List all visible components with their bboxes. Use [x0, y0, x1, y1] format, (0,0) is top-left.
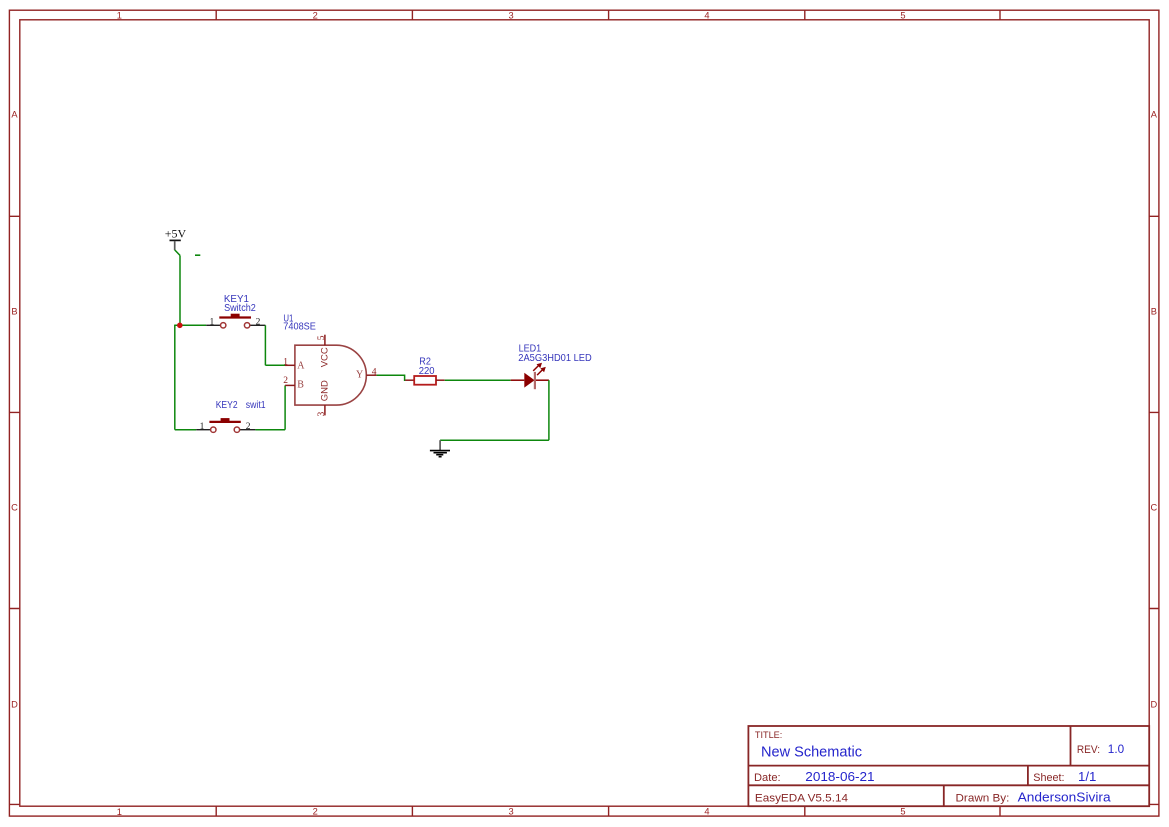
title block outline: [748, 726, 1149, 806]
svg-text:5: 5: [900, 807, 905, 817]
svg-text:1: 1: [117, 11, 122, 21]
resistor R2 right pin: [436, 379, 445, 381]
wire stray dash: [195, 254, 200, 256]
wire KEY2 pin2 to corner: [255, 429, 285, 431]
AND gate U1 pin 2: [285, 384, 295, 386]
svg-text:1: 1: [283, 357, 288, 367]
svg-text:3: 3: [509, 807, 514, 817]
svg-text:TITLE:: TITLE:: [755, 730, 782, 741]
wire left vertical down to KEY2: [174, 325, 176, 430]
switch KEY2 pin1 lead: [196, 429, 210, 431]
svg-text:New Schematic: New Schematic: [761, 743, 862, 760]
svg-text:B: B: [1151, 307, 1157, 317]
switch KEY1 contact circle 1: [221, 323, 226, 328]
wire junction to KEY1 pin1: [175, 324, 206, 326]
wire up to U1 pin B: [284, 385, 286, 429]
svg-text:A: A: [11, 109, 18, 119]
svg-text:3: 3: [509, 10, 514, 20]
AND gate U1 body: [295, 345, 366, 405]
svg-text:4: 4: [372, 367, 377, 377]
svg-text:EasyEDA V5.5.14: EasyEDA V5.5.14: [755, 792, 848, 804]
AND gate U1 pin 4: [366, 374, 376, 376]
diode LED1 cathode bar: [534, 372, 536, 389]
svg-text:1: 1: [210, 318, 215, 328]
svg-text:3: 3: [317, 412, 327, 417]
svg-text:VCC: VCC: [320, 347, 331, 367]
svg-text:+5V: +5V: [165, 227, 187, 241]
ground stub: [439, 440, 441, 450]
diode LED1 anode pin: [511, 379, 525, 381]
wire to KEY2 pin1: [175, 429, 196, 431]
svg-text:5: 5: [317, 335, 327, 340]
svg-text:Sheet:: Sheet:: [1033, 772, 1064, 784]
svg-text:D: D: [11, 699, 18, 709]
switch KEY2 actuator bar: [209, 421, 240, 423]
wire to ground: [440, 439, 549, 441]
svg-text:B: B: [297, 380, 304, 391]
frame row labels right: [1151, 109, 1158, 709]
resistor R2 body: [414, 376, 436, 385]
svg-text:2A5G3HD01 LED: 2A5G3HD01 LED: [518, 353, 591, 364]
svg-text:KEY2: KEY2: [216, 400, 238, 411]
switch KEY2 contact circle 1: [211, 427, 216, 432]
ground bar 2: [434, 452, 447, 454]
svg-text:2: 2: [246, 422, 251, 432]
frame row labels left: [11, 109, 18, 709]
svg-text:swit1: swit1: [246, 400, 266, 411]
resistor R2 left pin: [405, 379, 414, 381]
svg-text:AndersonSivira: AndersonSivira: [1018, 790, 1112, 805]
svg-text:2018-06-21: 2018-06-21: [805, 769, 874, 784]
frame row ticks right: [1149, 216, 1159, 804]
junction node dot: [177, 323, 183, 329]
switch KEY1 actuator bar: [219, 316, 251, 318]
frame row ticks left: [9, 216, 19, 804]
svg-text:B: B: [11, 307, 17, 317]
diode LED1 cathode pin: [536, 379, 549, 381]
power flag +5V stub: [174, 241, 176, 250]
svg-text:2: 2: [313, 807, 318, 817]
LED1 emission arrow 2: [537, 367, 546, 375]
svg-text:GND: GND: [320, 380, 331, 401]
svg-text:D: D: [1151, 699, 1158, 709]
svg-text:Date:: Date:: [754, 772, 781, 784]
AND gate U1 pin 5: [324, 335, 326, 346]
svg-text:1: 1: [117, 807, 122, 817]
svg-text:Y: Y: [356, 370, 363, 381]
svg-text:Drawn By:: Drawn By:: [956, 792, 1010, 804]
ground bar 1: [430, 450, 450, 452]
svg-text:REV:: REV:: [1077, 744, 1100, 756]
svg-text:2: 2: [256, 318, 261, 328]
svg-text:2: 2: [313, 10, 318, 20]
switch KEY1 pin2 lead: [250, 324, 266, 326]
switch KEY2 pin2 lead: [240, 429, 256, 431]
svg-text:4: 4: [704, 10, 709, 20]
switch KEY1 actuator button: [231, 314, 240, 318]
switch KEY1 contact circle 2: [244, 323, 249, 328]
wire KEY1 pin2 down: [264, 325, 266, 365]
frame column labels bottom: [117, 807, 906, 817]
wire to U1 pin A: [265, 364, 285, 366]
ground bar 3: [436, 454, 443, 456]
power flag +5V bar: [170, 239, 181, 241]
svg-text:A: A: [1151, 109, 1158, 119]
svg-text:1: 1: [200, 422, 205, 432]
svg-text:2: 2: [283, 376, 288, 386]
diode LED1 triangle: [524, 373, 534, 388]
ground bar 4: [439, 456, 442, 458]
frame column ticks top: [216, 10, 1000, 20]
svg-text:1.0: 1.0: [1108, 742, 1125, 756]
wire LED1 cathode down: [548, 380, 550, 440]
wire from +5V diagonal: [175, 250, 180, 256]
svg-text:C: C: [11, 503, 18, 513]
svg-text:7408SE: 7408SE: [283, 322, 316, 333]
switch KEY1 pin1 lead: [206, 324, 220, 326]
svg-text:A: A: [297, 360, 305, 371]
svg-text:1/1: 1/1: [1078, 769, 1096, 784]
frame column labels top: [117, 10, 906, 20]
switch KEY2 contact circle 2: [234, 427, 239, 432]
svg-text:C: C: [1151, 503, 1158, 513]
svg-text:Switch2: Switch2: [224, 303, 256, 314]
frame column ticks bottom: [216, 806, 1000, 816]
LED1 emission arrow 1: [533, 363, 542, 371]
wire R2 to LED1: [445, 379, 511, 381]
AND gate U1 pin 3: [324, 405, 326, 415]
switch KEY2 actuator button: [221, 418, 230, 422]
svg-text:5: 5: [900, 10, 905, 20]
svg-text:4: 4: [704, 807, 709, 817]
wire U1 pin4 to R2: [377, 375, 406, 380]
AND gate U1 pin 1: [285, 364, 295, 366]
wire +5V vertical: [179, 255, 181, 325]
